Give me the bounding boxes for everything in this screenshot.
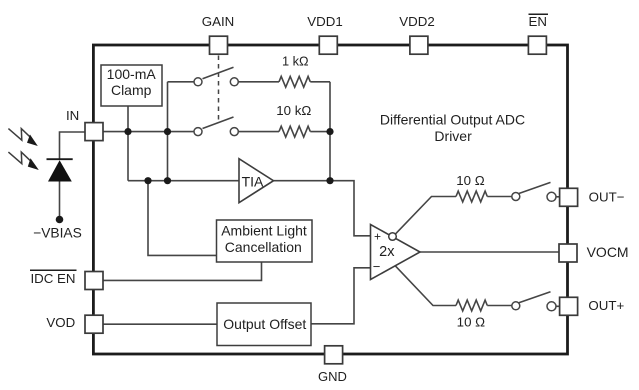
svg-text:GAIN: GAIN — [202, 14, 235, 29]
svg-text:10 Ω: 10 Ω — [456, 173, 484, 188]
svg-text:Differential Output ADC: Differential Output ADC — [380, 112, 525, 128]
svg-text:10 Ω: 10 Ω — [457, 315, 485, 330]
svg-text:2x: 2x — [379, 244, 395, 260]
svg-text:Driver: Driver — [434, 128, 472, 144]
svg-text:TIA: TIA — [242, 174, 264, 190]
svg-text:EN: EN — [528, 14, 546, 29]
svg-text:100-mA: 100-mA — [107, 66, 157, 82]
svg-text:1 kΩ: 1 kΩ — [282, 54, 309, 69]
svg-text:IDC EN: IDC EN — [30, 271, 75, 286]
svg-text:Clamp: Clamp — [111, 82, 152, 98]
svg-text:+: + — [374, 230, 381, 244]
svg-text:OUT−: OUT− — [589, 190, 625, 205]
svg-text:−: − — [373, 259, 381, 274]
svg-text:IN: IN — [66, 108, 79, 123]
svg-text:Ambient Light: Ambient Light — [221, 223, 307, 239]
svg-text:−VBIAS: −VBIAS — [33, 225, 82, 240]
svg-text:OUT+: OUT+ — [588, 298, 624, 313]
svg-text:10 kΩ: 10 kΩ — [276, 103, 311, 118]
svg-text:Cancellation: Cancellation — [225, 239, 302, 255]
svg-text:Output Offset: Output Offset — [223, 316, 306, 332]
svg-text:VOD: VOD — [46, 315, 75, 330]
svg-text:GND: GND — [318, 369, 347, 384]
svg-text:VDD2: VDD2 — [399, 14, 434, 29]
svg-text:VDD1: VDD1 — [307, 14, 342, 29]
svg-text:VOCM: VOCM — [587, 244, 629, 260]
